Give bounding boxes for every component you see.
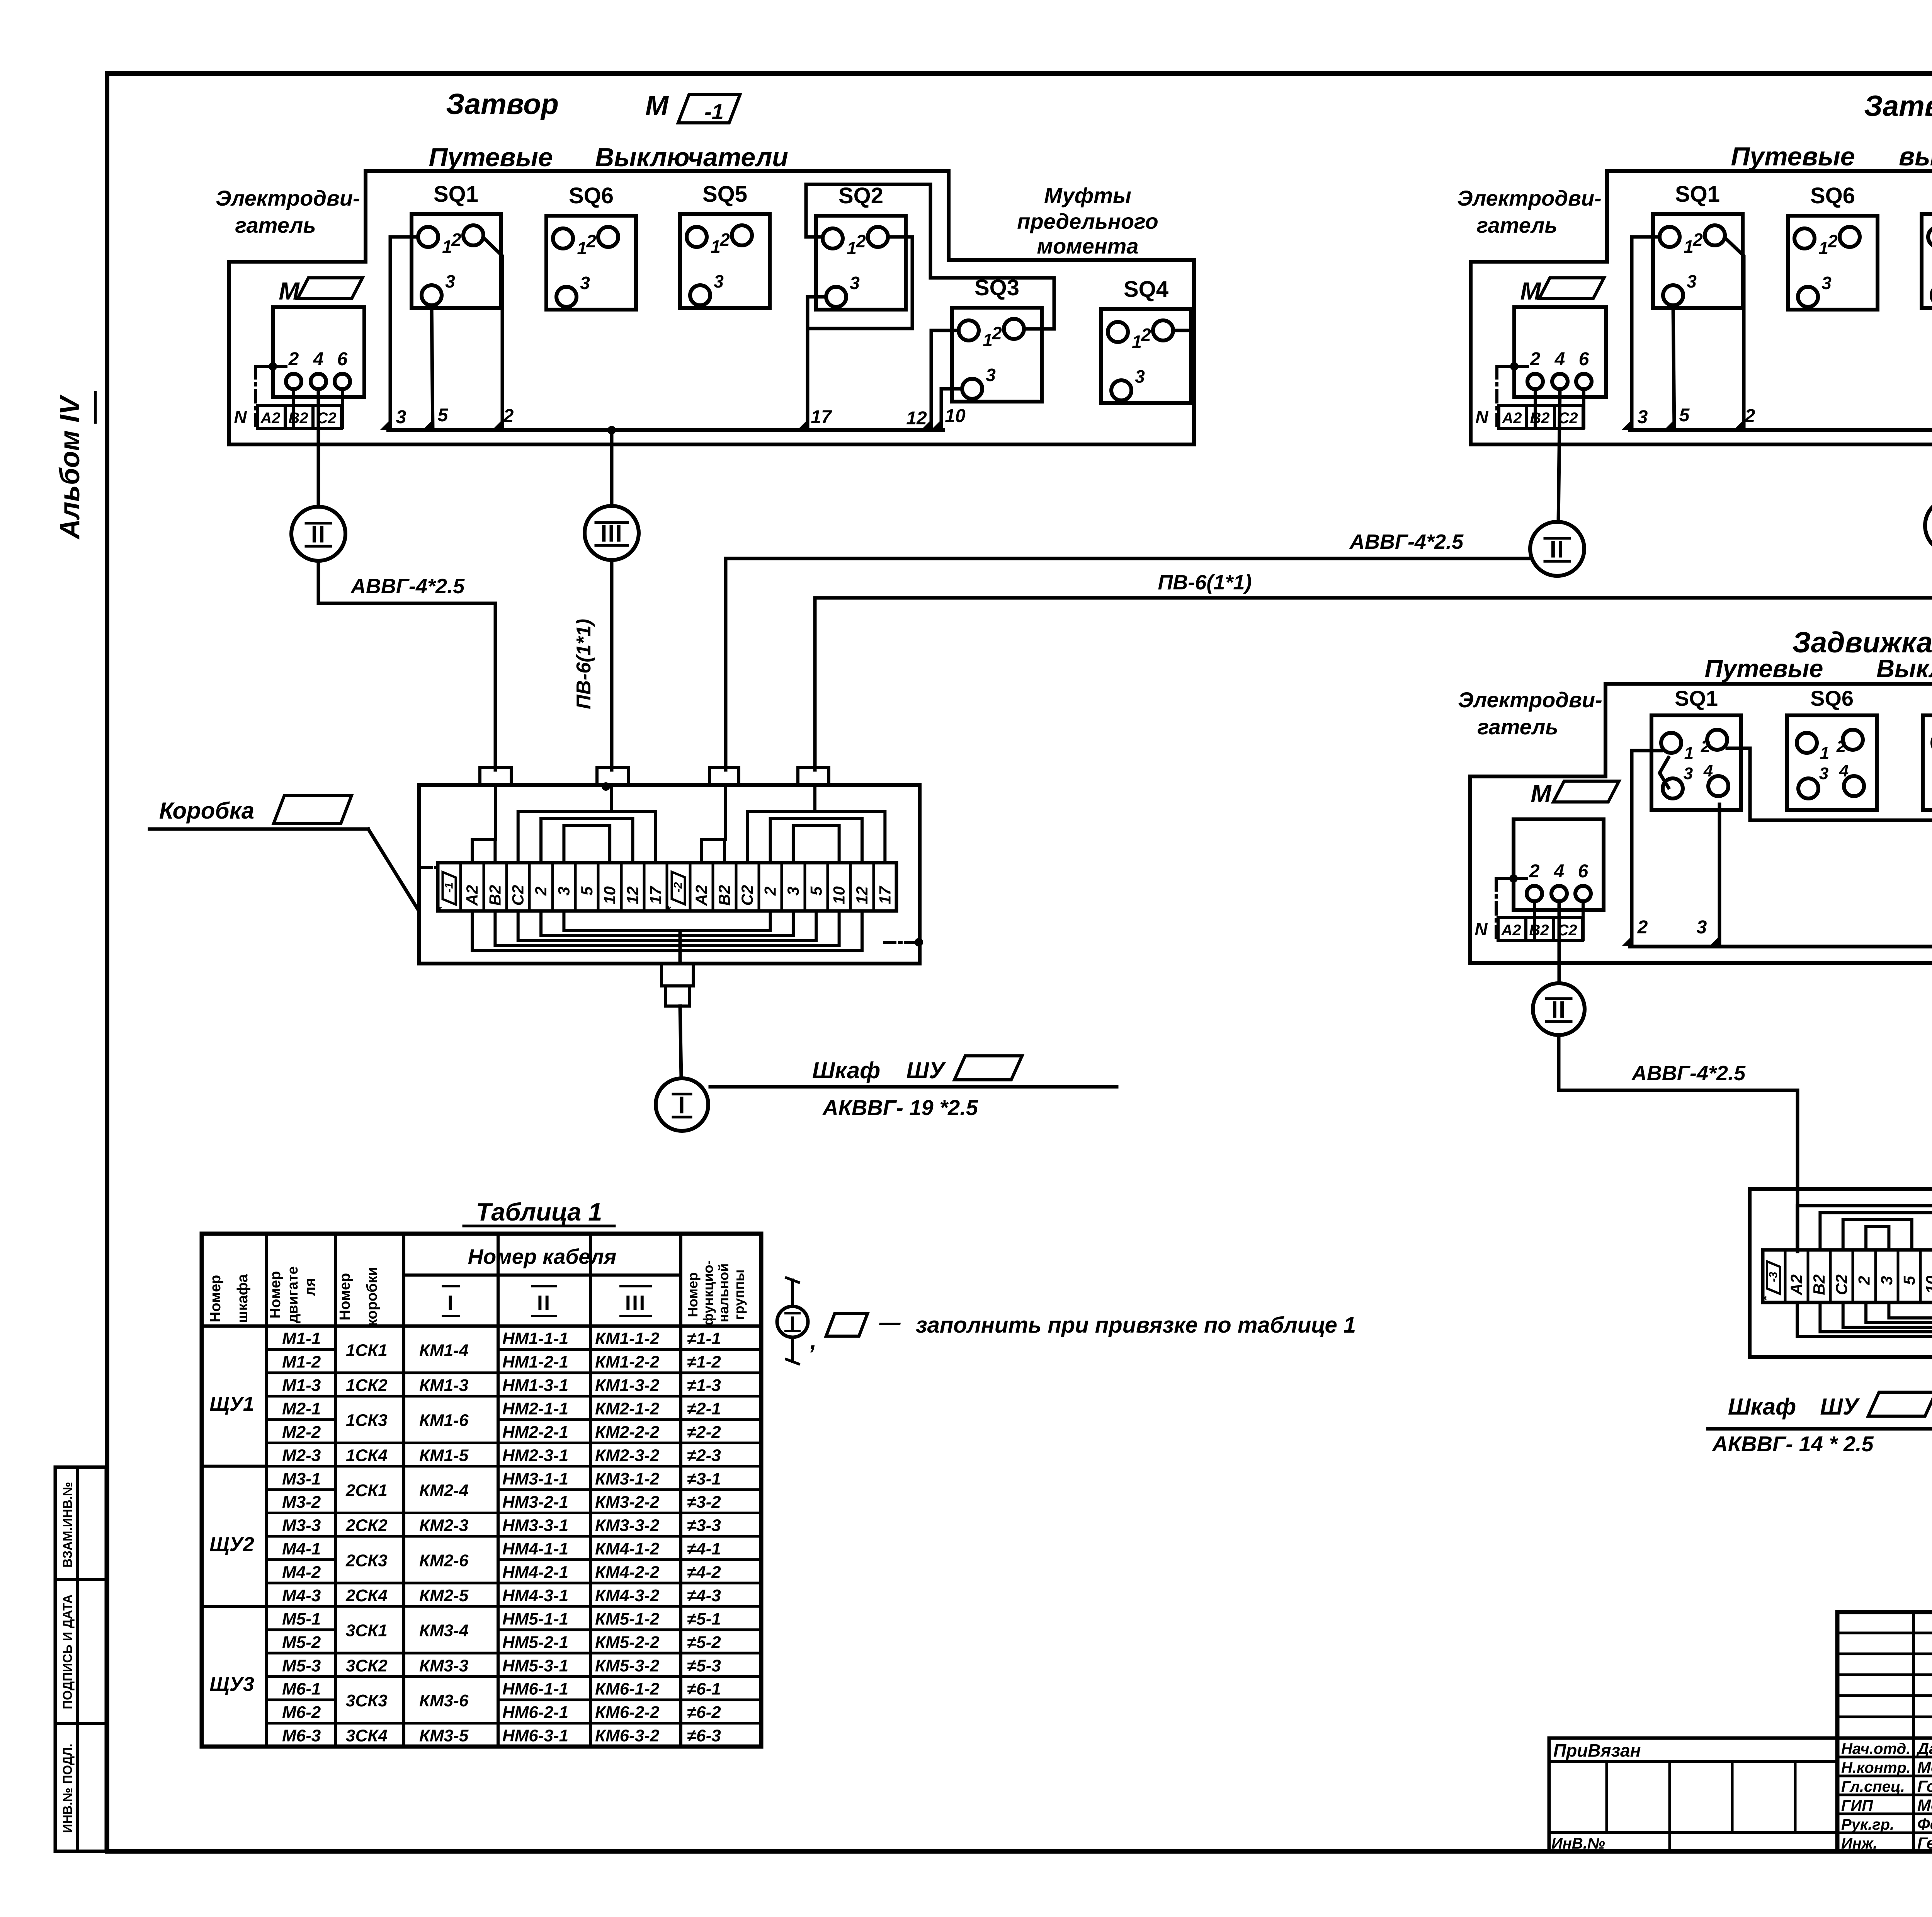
- svg-text:КМ3-5: КМ3-5: [419, 1726, 469, 1745]
- svg-text:—: —: [879, 1310, 901, 1334]
- svg-text:1: 1: [1132, 332, 1142, 352]
- M-3 wire SQ1 pin2 to SQ3 pin3: [1727, 748, 1932, 880]
- M-2 wire 5 (SQ1 pin3 to trunk): [1673, 305, 1690, 430]
- svg-text:6: 6: [1578, 861, 1588, 882]
- svg-text:НМ4-3-1: НМ4-3-1: [502, 1586, 568, 1605]
- svg-text:-2: -2: [672, 882, 685, 892]
- svg-text:Номер: Номер: [267, 1271, 284, 1319]
- svg-text:М2-1: М2-1: [282, 1399, 321, 1418]
- svg-text:В2: В2: [1810, 1274, 1828, 1295]
- svg-text:КМ3-3: КМ3-3: [419, 1656, 468, 1675]
- svg-text:КМ1-1-2: КМ1-1-2: [595, 1329, 660, 1348]
- middle box cable marker I: [656, 1078, 708, 1131]
- svg-text:3: 3: [1878, 1276, 1896, 1285]
- lower box wire loops upper: [1797, 1206, 1932, 1250]
- svg-text:2: 2: [1701, 737, 1711, 756]
- svg-text:3: 3: [714, 271, 724, 291]
- svg-text:М5-2: М5-2: [282, 1633, 321, 1652]
- svg-text:3: 3: [1821, 273, 1832, 293]
- M-3 switch SQ5: [1923, 686, 1932, 810]
- svg-text:3: 3: [1819, 764, 1828, 783]
- svg-text:2: 2: [288, 349, 299, 369]
- svg-text:НМ5-2-1: НМ5-2-1: [502, 1633, 568, 1652]
- lower box wire loops lower: [1797, 1302, 1932, 1336]
- svg-text:≠5-2: ≠5-2: [687, 1633, 721, 1652]
- svg-text:НМ2-3-1: НМ2-3-1: [502, 1446, 568, 1465]
- svg-text:1СК2: 1СК2: [346, 1376, 388, 1395]
- svg-text:Путевые: Путевые: [1731, 142, 1855, 171]
- svg-text:2: 2: [1745, 406, 1755, 426]
- svg-text:АВВГ-4*2.5: АВВГ-4*2.5: [350, 575, 465, 598]
- svg-text:М: М: [279, 277, 300, 305]
- svg-text:Выключатели: Выключатели: [1876, 654, 1932, 683]
- svg-text:нальной: нальной: [716, 1263, 731, 1323]
- svg-text:НМ1-1-1: НМ1-1-1: [502, 1329, 568, 1348]
- svg-text:группы: группы: [731, 1270, 747, 1320]
- svg-text:АВВГ-4*2.5: АВВГ-4*2.5: [1631, 1062, 1746, 1085]
- M-2 wire 2 (SQ1 pin2 to trunk): [1725, 238, 1755, 430]
- svg-text:гатель: гатель: [1476, 213, 1557, 237]
- svg-text:3: 3: [1684, 764, 1693, 783]
- svg-text:N: N: [1475, 919, 1488, 939]
- svg-text:*: *: [664, 906, 679, 912]
- svg-text:3СК4: 3СК4: [346, 1726, 388, 1745]
- svg-text:АКВВГ- 19 *2.5: АКВВГ- 19 *2.5: [822, 1095, 978, 1120]
- svg-text:3: 3: [1687, 271, 1697, 291]
- svg-text:Мосеенко: Мосеенко: [1917, 1758, 1932, 1776]
- svg-text:Путевые: Путевые: [1705, 654, 1823, 683]
- svg-text:-1: -1: [443, 882, 456, 893]
- svg-text:≠5-1: ≠5-1: [687, 1609, 721, 1628]
- table body rows: [202, 1329, 761, 1745]
- svg-text:3: 3: [554, 887, 573, 896]
- svg-text:≠1-3: ≠1-3: [687, 1376, 721, 1395]
- svg-text:М2-3: М2-3: [282, 1446, 321, 1465]
- svg-text:АКВВГ- 14 * 2.5: АКВВГ- 14 * 2.5: [1711, 1432, 1874, 1456]
- M-1 cable marker III: [585, 506, 639, 560]
- svg-text:Инж.: Инж.: [1841, 1835, 1878, 1852]
- svg-text:Шкаф: Шкаф: [1728, 1394, 1796, 1420]
- svg-text:С2: С2: [509, 885, 527, 906]
- block M-1 enclosure outline: [229, 171, 1194, 444]
- M-1 wire 2 (SQ1 pin2 to trunk): [483, 238, 514, 430]
- svg-text:Федорова: Федорова: [1917, 1815, 1932, 1833]
- middle box bottom gland: [662, 964, 693, 1006]
- label Шкаф ШУ / АКВВГ-19х2.5: [710, 1056, 1117, 1120]
- middle box wire loops lower: [472, 911, 862, 964]
- svg-text:I: I: [447, 1291, 454, 1315]
- M-2 switch SQ6: [1788, 183, 1878, 310]
- svg-text:≠1-1: ≠1-1: [687, 1329, 721, 1348]
- svg-text:В2: В2: [288, 410, 308, 427]
- M-2 motor neutral N wire: [1475, 362, 1527, 427]
- svg-text:Затвор: Затвор: [1864, 90, 1932, 122]
- svg-text:А2: А2: [1501, 922, 1521, 939]
- svg-text:SQ6: SQ6: [1810, 183, 1855, 208]
- svg-text:12: 12: [906, 408, 927, 429]
- M-1 switch SQ2: [816, 183, 906, 310]
- svg-text:Таблица 1: Таблица 1: [476, 1198, 602, 1226]
- svg-text:SQ5: SQ5: [702, 182, 747, 207]
- svg-text:10: 10: [600, 886, 619, 904]
- svg-text:≠4-3: ≠4-3: [687, 1586, 721, 1605]
- svg-text:Гл.спец.: Гл.спец.: [1841, 1778, 1905, 1795]
- svg-text:III: III: [600, 520, 623, 547]
- svg-text:N: N: [234, 407, 247, 427]
- svg-text:12: 12: [623, 886, 641, 904]
- svg-text:КМ3-4: КМ3-4: [419, 1621, 468, 1640]
- svg-text:10: 10: [830, 886, 848, 904]
- svg-text:3: 3: [784, 887, 802, 896]
- svg-text:3СК3: 3СК3: [346, 1691, 388, 1710]
- svg-text:М4-3: М4-3: [282, 1586, 321, 1605]
- svg-text:выключатели: выключатели: [1899, 142, 1932, 171]
- svg-text:3: 3: [396, 407, 406, 427]
- svg-text:3СК2: 3СК2: [346, 1656, 388, 1675]
- svg-text:С2: С2: [738, 885, 756, 906]
- M-1 cable АВВГ-4х2.5 to box: [318, 561, 495, 770]
- M-1 motor M with terminals 2 4 6 and А2 В2 С2: [257, 277, 364, 429]
- svg-text:АВВГ-4*2.5: АВВГ-4*2.5: [1349, 530, 1464, 553]
- svg-text:Затвор: Затвор: [446, 88, 559, 120]
- svg-text:Рук.гр.: Рук.гр.: [1841, 1816, 1894, 1833]
- svg-text:SQ1: SQ1: [1675, 182, 1720, 207]
- svg-text:3: 3: [850, 273, 860, 293]
- M-3 wire 2 (SQ1 pin1 to trunk): [1632, 751, 1661, 947]
- svg-text:функцио-: функцио-: [700, 1260, 716, 1325]
- legend: I, pgram — заполнить при привязке по таблице 1: [777, 1278, 1356, 1364]
- svg-text:≠2-3: ≠2-3: [687, 1446, 721, 1465]
- svg-text:НМ5-3-1: НМ5-3-1: [502, 1656, 568, 1675]
- svg-text:КМ3-2-2: КМ3-2-2: [595, 1493, 660, 1512]
- table title: Таблица 1: [464, 1198, 614, 1226]
- svg-text:М4-1: М4-1: [282, 1539, 321, 1558]
- svg-text:1: 1: [983, 330, 993, 350]
- svg-text:ГИП: ГИП: [1841, 1797, 1873, 1814]
- svg-text:А2: А2: [692, 885, 711, 906]
- M-2 cable ПВ-6(1х1) to middle box: [815, 553, 1932, 770]
- svg-text:3: 3: [1697, 917, 1707, 938]
- middle junction box Коробка outline: [419, 785, 920, 964]
- svg-text:≠3-2: ≠3-2: [687, 1493, 721, 1512]
- svg-text:НМ6-2-1: НМ6-2-1: [502, 1703, 568, 1722]
- svg-text:М3-1: М3-1: [282, 1469, 321, 1488]
- block M-2 enclosure outline: [1471, 171, 1932, 444]
- svg-text:НМ1-2-1: НМ1-2-1: [502, 1353, 568, 1372]
- svg-text:гатель: гатель: [235, 213, 316, 237]
- M-1 switch SQ6: [546, 183, 636, 310]
- svg-text:1: 1: [442, 237, 452, 257]
- svg-text:ШУ: ШУ: [1820, 1394, 1860, 1420]
- svg-text:10: 10: [945, 406, 966, 426]
- middle box top-edge node: [602, 782, 610, 791]
- svg-text:НМ6-1-1: НМ6-1-1: [502, 1680, 568, 1699]
- M-3 wire 3 (SQ1 pin4 to trunk): [1697, 804, 1719, 947]
- M-3 trunk wire: [1622, 936, 1932, 947]
- svg-text:SQ1: SQ1: [434, 182, 478, 207]
- svg-text:ИНВ.№ ПОДЛ.: ИНВ.№ ПОДЛ.: [60, 1743, 75, 1833]
- svg-text:КМ1-3: КМ1-3: [419, 1376, 468, 1395]
- svg-text:2: 2: [532, 887, 550, 896]
- svg-text:≠2-1: ≠2-1: [687, 1399, 721, 1418]
- svg-text:3СК1: 3СК1: [346, 1621, 388, 1640]
- M-2 cable marker II: [1530, 522, 1584, 576]
- svg-text:2: 2: [1836, 737, 1846, 756]
- svg-text:КМ6-1-2: КМ6-1-2: [595, 1680, 660, 1699]
- svg-text:М6-3: М6-3: [282, 1726, 321, 1745]
- svg-text:КМ3-3-2: КМ3-3-2: [595, 1516, 660, 1535]
- M-1 jumper SQ2 pin2: [808, 237, 912, 329]
- svg-text:Электродви-: Электродви-: [216, 186, 360, 210]
- svg-text:Шкаф: Шкаф: [812, 1057, 880, 1083]
- title block grid: [1837, 1612, 1932, 1851]
- label Шкаф ШУ / АКВВГ-14х2.5: [1708, 1392, 1932, 1456]
- block M-1 label: Муфты предельного момента: [1017, 183, 1158, 258]
- svg-text:-1: -1: [704, 99, 724, 124]
- svg-text:М2-2: М2-2: [282, 1423, 321, 1442]
- M-2 motor cable to marker II: [1558, 390, 1560, 522]
- svg-text:НМ6-3-1: НМ6-3-1: [502, 1726, 568, 1745]
- svg-text:4: 4: [1554, 349, 1565, 369]
- svg-text:≠6-2: ≠6-2: [687, 1703, 721, 1722]
- svg-text:12: 12: [853, 886, 871, 904]
- M-1 switch SQ5: [680, 182, 770, 308]
- svg-text:2: 2: [1141, 325, 1151, 345]
- svg-text:Мосеенко: Мосеенко: [1917, 1796, 1932, 1814]
- svg-text:1: 1: [577, 238, 587, 258]
- svg-text:М1-2: М1-2: [282, 1353, 321, 1372]
- block M-2 title: Затвор М -2-: [1864, 90, 1932, 128]
- svg-text:Путевые: Путевые: [429, 143, 553, 172]
- svg-text:А2: А2: [1502, 410, 1522, 427]
- svg-text:В2: В2: [1529, 922, 1549, 939]
- svg-text:С2: С2: [1832, 1274, 1850, 1295]
- svg-text:ПОДПИСЬ И ДАТА: ПОДПИСЬ И ДАТА: [60, 1594, 75, 1709]
- svg-text:10: 10: [1923, 1276, 1932, 1294]
- M-1 motor neutral N wire: [234, 362, 286, 427]
- svg-text:КМ3-1-2: КМ3-1-2: [595, 1469, 660, 1488]
- M-1 cable to marker III: [610, 430, 614, 506]
- svg-text:III: III: [625, 1291, 646, 1315]
- svg-text:2СК1: 2СК1: [345, 1481, 388, 1500]
- svg-text:НМ1-3-1: НМ1-3-1: [502, 1376, 568, 1395]
- svg-text:ПВ-6(1*1): ПВ-6(1*1): [573, 619, 595, 709]
- svg-text:2: 2: [1637, 917, 1648, 938]
- svg-text:4: 4: [1703, 761, 1713, 780]
- svg-text:2: 2: [1529, 861, 1540, 882]
- svg-text:НМ2-2-1: НМ2-2-1: [502, 1423, 568, 1442]
- svg-text:КМ2-2-2: КМ2-2-2: [595, 1423, 660, 1442]
- svg-text:SQ2: SQ2: [838, 183, 883, 208]
- svg-text:НМ4-2-1: НМ4-2-1: [502, 1563, 568, 1582]
- svg-text:1: 1: [1684, 744, 1694, 763]
- svg-text:2СК4: 2СК4: [345, 1586, 388, 1605]
- svg-text:ЩУ2: ЩУ2: [209, 1533, 254, 1556]
- middle box cable glands: [480, 768, 829, 786]
- svg-text:II: II: [1551, 996, 1566, 1023]
- svg-text:Номер кабеля: Номер кабеля: [468, 1245, 617, 1268]
- svg-text:5: 5: [438, 405, 449, 426]
- svg-text:1: 1: [847, 238, 857, 258]
- svg-text:4: 4: [313, 349, 324, 369]
- M-2 wire 3 (SQ1 pin1 to trunk): [1632, 237, 1660, 430]
- svg-text:двигате: двигате: [285, 1266, 301, 1323]
- svg-text:шкафа: шкафа: [235, 1274, 251, 1323]
- svg-text:2: 2: [1855, 1276, 1873, 1285]
- svg-text:2: 2: [503, 406, 514, 426]
- svg-text:В2: В2: [486, 885, 504, 906]
- svg-text:2: 2: [451, 230, 461, 250]
- svg-text:2: 2: [1827, 231, 1838, 251]
- svg-text:Нач.отд.: Нач.отд.: [1841, 1740, 1910, 1757]
- svg-text:≠4-1: ≠4-1: [687, 1539, 721, 1558]
- middle box dash-dot right + node: [885, 938, 923, 947]
- M-1 wire 12 (SQ3 pin1 to trunk): [906, 330, 959, 430]
- svg-text:,: ,: [810, 1328, 817, 1354]
- svg-text:-3: -3: [1767, 1272, 1780, 1282]
- svg-text:2СК2: 2СК2: [345, 1516, 388, 1535]
- svg-text:коробки: коробки: [364, 1267, 380, 1326]
- svg-text:≠4-2: ≠4-2: [687, 1563, 721, 1582]
- title block left extension (Привязан / Инв.№): [1549, 1738, 1837, 1852]
- M-1 wire 5 (SQ1 pin3 to trunk): [432, 305, 449, 430]
- svg-text:Номер: Номер: [337, 1273, 353, 1321]
- M-1 wire SQ4 pin2 stub: [1173, 329, 1194, 332]
- svg-text:М1-1: М1-1: [282, 1329, 321, 1348]
- svg-text:М6-1: М6-1: [282, 1680, 321, 1699]
- lower box terminal strip: [1759, 1250, 1932, 1302]
- svg-text:НМ3-1-1: НМ3-1-1: [502, 1469, 568, 1488]
- svg-text:≠3-1: ≠3-1: [687, 1469, 721, 1488]
- svg-text:2: 2: [992, 323, 1002, 343]
- svg-text:5: 5: [1900, 1276, 1918, 1285]
- svg-text:1: 1: [711, 237, 721, 257]
- svg-text:КМ2-5: КМ2-5: [419, 1586, 469, 1605]
- table grid and headers: [202, 1234, 761, 1747]
- M-3 switch SQ6: [1787, 686, 1877, 810]
- svg-text:Коробка: Коробка: [159, 798, 254, 824]
- svg-text:ВЗАМ.ИНВ.№: ВЗАМ.ИНВ.№: [60, 1482, 75, 1568]
- svg-text:ИнВ.№: ИнВ.№: [1551, 1835, 1605, 1852]
- svg-text:М: М: [645, 90, 669, 121]
- svg-text:≠2-2: ≠2-2: [687, 1423, 721, 1442]
- svg-text:М1-3: М1-3: [282, 1376, 321, 1395]
- M-3 jumper SQ1 pins 1-3: [1660, 758, 1668, 788]
- block M-3 label: Электродвигатель: [1458, 688, 1602, 739]
- svg-text:М3-2: М3-2: [282, 1493, 321, 1512]
- svg-text:SQ6: SQ6: [1810, 686, 1854, 710]
- svg-text:КМ1-4: КМ1-4: [419, 1341, 468, 1360]
- block M-3 title: Задвижка М -3-: [1792, 626, 1932, 662]
- svg-text:II: II: [311, 521, 326, 548]
- svg-text:ля: ля: [302, 1278, 318, 1296]
- svg-text:1: 1: [1818, 238, 1828, 258]
- svg-text:4: 4: [1839, 761, 1849, 780]
- svg-text:предельного: предельного: [1017, 209, 1158, 233]
- M-1 switch SQ3: [952, 275, 1042, 402]
- svg-text:1СК3: 1СК3: [346, 1411, 388, 1430]
- middle box terminal strip: [435, 863, 896, 912]
- svg-text:*: *: [435, 906, 449, 912]
- svg-text:НМ4-1-1: НМ4-1-1: [502, 1539, 568, 1558]
- svg-text:КМ5-3-2: КМ5-3-2: [595, 1656, 660, 1675]
- svg-text:Номер: Номер: [207, 1275, 224, 1323]
- svg-text:КМ4-2-2: КМ4-2-2: [595, 1563, 660, 1582]
- block M-1 label: Электродвигатель: [216, 186, 360, 237]
- svg-text:3: 3: [1638, 407, 1648, 427]
- left stamp strip (Взам.инв.№ / Подпись и дата / Инв.№ подл.): [55, 1467, 106, 1851]
- svg-text:М5-3: М5-3: [282, 1656, 321, 1675]
- block M-3 enclosure outline: [1470, 684, 1932, 963]
- svg-text:ШУ: ШУ: [906, 1057, 946, 1083]
- svg-text:5: 5: [1679, 405, 1690, 426]
- svg-text:II: II: [537, 1291, 551, 1315]
- svg-text:КМ1-3-2: КМ1-3-2: [595, 1376, 660, 1395]
- svg-text:≠5-3: ≠5-3: [687, 1656, 721, 1675]
- M-3 cable marker II: [1533, 983, 1585, 1035]
- svg-text:2: 2: [1530, 349, 1541, 369]
- svg-text:КМ3-6: КМ3-6: [419, 1691, 469, 1710]
- album label: Альбом IV: [54, 392, 95, 540]
- M-3 switch SQ1: [1651, 686, 1741, 810]
- M-2 switch SQ5: [1922, 182, 1932, 308]
- svg-text:М5-1: М5-1: [282, 1609, 321, 1628]
- svg-text:2: 2: [1692, 230, 1703, 250]
- svg-text:SQ1: SQ1: [1675, 686, 1718, 710]
- svg-text:Альбом IV: Альбом IV: [54, 394, 85, 540]
- svg-text:М6-2: М6-2: [282, 1703, 321, 1722]
- svg-text:КМ1-6: КМ1-6: [419, 1411, 469, 1430]
- M-2 switch SQ1: [1653, 182, 1743, 308]
- svg-text:2СК3: 2СК3: [345, 1551, 388, 1570]
- svg-text:Н.контр.: Н.контр.: [1841, 1759, 1911, 1776]
- svg-text:≠1-2: ≠1-2: [687, 1353, 721, 1372]
- M-1 wire SQ2 pin1 to SQ3 pin2 (loop over SQ2): [806, 184, 1054, 329]
- svg-text:5: 5: [578, 886, 596, 896]
- middle box wire loops upper-left: [472, 786, 656, 863]
- svg-text:5: 5: [807, 886, 825, 896]
- svg-text:КМ5-2-2: КМ5-2-2: [595, 1633, 660, 1652]
- block M-2 label: Электродвигатель: [1457, 186, 1601, 237]
- svg-text:3: 3: [1135, 366, 1145, 386]
- svg-text:гатель: гатель: [1477, 715, 1558, 739]
- M-1 motor cable to marker II: [317, 390, 320, 507]
- svg-text:Муфты: Муфты: [1044, 183, 1131, 208]
- M-1 trunk junction node: [607, 426, 616, 434]
- svg-text:Электродви-: Электродви-: [1458, 688, 1602, 712]
- svg-text:М3-3: М3-3: [282, 1516, 321, 1535]
- middle box cable to marker I: [680, 1006, 681, 1078]
- svg-text:ПВ-6(1*1): ПВ-6(1*1): [1158, 571, 1252, 594]
- svg-text:Номер: Номер: [685, 1272, 701, 1317]
- svg-text:4: 4: [1554, 861, 1565, 882]
- svg-text:В2: В2: [1530, 410, 1549, 427]
- svg-text:Гольцман: Гольцман: [1917, 1777, 1932, 1795]
- middle box wire loops upper-right: [702, 786, 885, 863]
- svg-text:М: М: [1531, 780, 1552, 807]
- svg-text:Выключатели: Выключатели: [595, 143, 788, 172]
- M-3 cable АВВГ-4х2.5 to lower box: [1559, 1035, 1798, 1251]
- M-3 motor M with terminals 2 4 6 and А2 В2 С2: [1498, 780, 1619, 941]
- svg-text:17: 17: [811, 407, 832, 427]
- M-3 motor neutral N wire: [1475, 874, 1527, 939]
- svg-text:SQ4: SQ4: [1124, 277, 1168, 302]
- svg-text:SQ6: SQ6: [569, 183, 614, 208]
- svg-text:Гечас: Гечас: [1917, 1834, 1932, 1852]
- svg-text:6: 6: [337, 349, 348, 369]
- svg-text:≠6-1: ≠6-1: [687, 1680, 721, 1699]
- svg-text:6: 6: [1579, 349, 1589, 369]
